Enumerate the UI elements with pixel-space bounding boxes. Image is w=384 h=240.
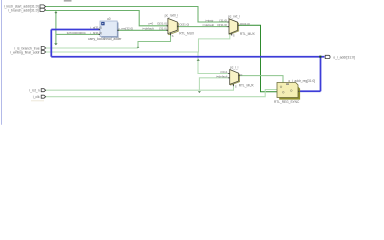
input port i_clk [41,95,45,98]
junction dot blue net [319,56,321,58]
input port i_writing_final_addr [41,51,45,54]
svg-text:RTL_MUX: RTL_MUX [179,32,195,36]
junction arrow on i_branch_addr branch [54,12,57,14]
svg-text:RTL_MUX: RTL_MUX [239,84,255,88]
svg-text:32'h00000004: 32'h00000004 [67,31,86,35]
input port i_branch_addr[31:0] [40,8,46,11]
svg-text:o_i_addr_reg[31:0]: o_i_addr_reg[31:0] [288,79,315,83]
wire mux3 output to register top pin [238,76,283,83]
svg-text:o_res[32:0]: o_res[32:0] [118,26,133,30]
faint artifact line bottom left [31,100,44,101]
input port i_is_branch_true [41,47,45,50]
svg-text:i=instr: i=instr [205,19,213,23]
svg-text:S: S [233,33,235,37]
svg-text:pc_nxt0_i: pc_nxt0_i [165,14,179,18]
wire net i_writing_final_addr [46,33,230,53]
wire blue net register Q / pc feedback [51,30,324,92]
svg-text:pc_i_i: pc_i_i [230,65,239,69]
wire net i_is_branch_true to mux1 select [46,47,139,49]
wire mux2 output to register D pin [238,25,278,92]
svg-text:i=default: i=default [216,74,228,78]
svg-text:i_clk: i_clk [33,95,40,99]
svg-text:carry_lookahead_adder: carry_lookahead_adder [88,37,122,41]
junction arrow on i_rst_n riser [198,91,201,93]
svg-text:i_branch_addr[31:0]: i_branch_addr[31:0] [8,9,38,13]
wire branch of i_branch_addr down to adder pin b [55,11,57,45]
op mux3 pc_i_i RTL_MUX [228,65,254,88]
op mux1 pc_nxt0_i RTL_MUX [165,14,195,39]
svg-text:i=default: i=default [142,27,154,31]
svg-text:RTL_MUX: RTL_MUX [240,32,256,36]
wire mux1 output to mux2 pin B [177,26,229,28]
svg-text:o_i_addr[31:0]: o_i_addr[31:0] [333,56,355,60]
svg-text:i_a[31:0]: i_a[31:0] [90,25,102,29]
sheet border left edge [1,0,3,125]
svg-text:RTL_REG_SYNC: RTL_REG_SYNC [274,100,300,104]
crossing arrow under blue wire [197,59,200,61]
arrow end of i_branch_addr branch [54,43,57,45]
wire riser from i_rst_n to mux3 pin B [199,78,229,90]
junction arrow at is_branch riser [137,46,140,48]
svg-text:O[31:0]: O[31:0] [217,23,227,27]
input port i_instr_start_addr[31:0] [40,5,46,8]
svg-text:pc_nxt_i: pc_nxt_i [228,15,240,19]
adder block u0 carry_lookahead_adder [88,17,122,41]
svg-text:i_writing_final_addr: i_writing_final_addr [10,51,40,55]
svg-text:O[31:0]: O[31:0] [179,23,189,27]
svg-text:o=0: o=0 [148,21,153,25]
svg-text:S: S [172,34,174,38]
svg-text:i_b[31:0]: i_b[31:0] [90,31,102,35]
svg-text:S: S [235,85,237,89]
wire branch of i_writing_final_addr down to mux3 pin A [198,52,230,74]
wire net i_branch_addr to mux1 pin A [46,11,168,26]
svg-text:u0: u0 [107,17,111,21]
wire net i_rst_n to mux3 select [46,84,234,91]
input port i_rst_n [41,89,45,92]
wire net i_instr_start_addr to mux2 pin A [46,7,230,23]
wire net i_clk to register C pin [46,90,278,97]
svg-text:i=default: i=default [203,23,215,27]
register o_i_addr_reg RTL_REG_SYNC [274,79,315,104]
output port o_i_addr[31:0] [325,55,330,58]
op mux2 pc_nxt_i RTL_MUX [228,15,256,38]
svg-text:O[31:0]: O[31:0] [157,21,167,25]
clipped net label smudge top [64,0,72,2]
svg-text:O[31:0]: O[31:0] [240,22,250,26]
svg-text:i_rst_n: i_rst_n [29,89,40,93]
svg-text:[31:0]: [31:0] [219,19,227,23]
wire adder output o_res to mux1 pin B [118,29,168,31]
svg-text:[31:0]: [31:0] [159,27,167,31]
wire branch into adder i_b [56,33,100,35]
